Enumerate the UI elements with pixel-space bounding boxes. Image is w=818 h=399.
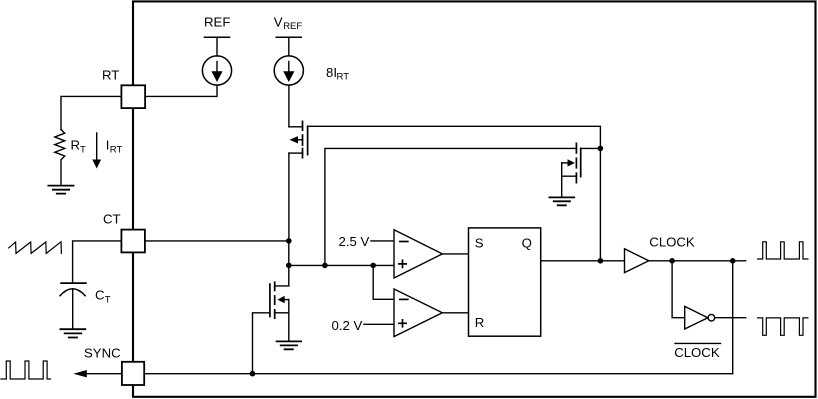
ground (Q3) [277,341,302,349]
pin CT [121,230,144,253]
wire VREF source to Q1 source [288,85,290,127]
svg-text:RT: RT [337,72,350,83]
svg-text:CT: CT [103,212,121,227]
current arrow IRT [96,133,98,160]
node junction at comparator branch [370,263,376,269]
wire latch Q output to buffer [541,260,625,262]
svg-text:Q: Q [522,236,532,251]
label CLOCKbar [675,342,721,344]
wire CLOCK to inverter input [672,261,685,318]
svg-text:CLOCK: CLOCK [674,345,720,360]
wire inverter output CLOCKbar [715,317,746,319]
wire RT pin to RT resistor [61,96,121,129]
svg-text:V: V [274,15,283,30]
svg-text:T: T [80,145,86,156]
wire Q2 gate to gate rail [581,147,601,149]
pin RT [121,85,145,108]
comparator U2 [394,289,442,337]
wire SYNC pin to clock feedback [146,373,733,375]
SYNC pulse waveform [1,361,51,379]
wire REF source to RT node [146,85,218,96]
capacitor CT [61,282,86,284]
gate rail junction [598,146,604,152]
wire CT pin to node A [146,240,289,242]
wire Q3 source to ground [288,300,290,341]
resistor RT [55,130,65,185]
node junction at Q2 drain branch [322,263,328,269]
SYNC net junction [250,371,256,377]
wire node B to Q3 drain [275,265,289,286]
svg-text:S: S [475,235,484,250]
wire node A to node B [288,241,290,266]
ground (RT resistor) [48,186,73,194]
svg-text:REF: REF [204,14,230,29]
svg-text:RT: RT [102,68,119,83]
svg-text:C: C [95,288,105,303]
node A junction [286,238,292,244]
svg-text:0.2 V: 0.2 V [332,318,363,333]
pin SYNC [122,362,144,385]
wire U1 output to latch S [442,253,468,255]
wire Q1 drain to CT node [288,153,290,241]
gate rail junction on Q wire [598,258,604,264]
sawtooth waveform at CT [9,242,62,254]
wire 0.2V reference to comparator U2 [364,323,394,325]
SYNC output arrow [86,373,121,375]
transistor Q1 (PMOS) [289,121,308,157]
transistor Q2 (NMOS) [562,143,581,182]
svg-text:REF: REF [283,21,302,32]
CLOCKbar output waveform [758,318,808,335]
wire buffer output CLOCK [649,260,746,262]
wire Q2 source to ground [561,163,563,197]
buffer U4 [625,249,649,273]
svg-text:RT: RT [110,145,123,156]
svg-text:CLOCK: CLOCK [649,235,695,250]
transistor Q3 (NMOS, SYNC discharge) [270,282,289,318]
CLOCK output waveform [758,242,808,259]
svg-text:R: R [475,315,485,330]
node B junction [286,263,292,269]
svg-text:T: T [105,295,111,306]
wire Q2 drain net [325,148,577,265]
svg-text:2.5 V: 2.5 V [339,234,370,249]
ground (Q2) [549,197,574,205]
svg-text:SYNC: SYNC [84,346,121,361]
svg-text:R: R [71,138,81,153]
wire node B to comparator inputs [289,264,394,266]
wire CT pin to capacitor CT [73,241,121,283]
CLOCK net junction to feedback [730,258,736,264]
svg-text:8I: 8I [326,65,337,80]
wire feedback CLOCK to SYNC [732,261,734,374]
comparator U1 [394,230,442,278]
inverter U5 [685,306,715,329]
SR latch U3 [469,228,541,336]
ground (capacitor CT) [60,329,85,337]
wire Q1 gate to gate rail [308,126,601,260]
wire branch to comparator U2 minus [373,265,394,299]
wire 2.5V reference to comparator U1 [371,240,394,242]
wire Q3 gate to SYNC net [253,313,270,374]
wire U2 output to latch R [442,312,468,314]
CLOCK net junction to inverter [669,258,675,264]
